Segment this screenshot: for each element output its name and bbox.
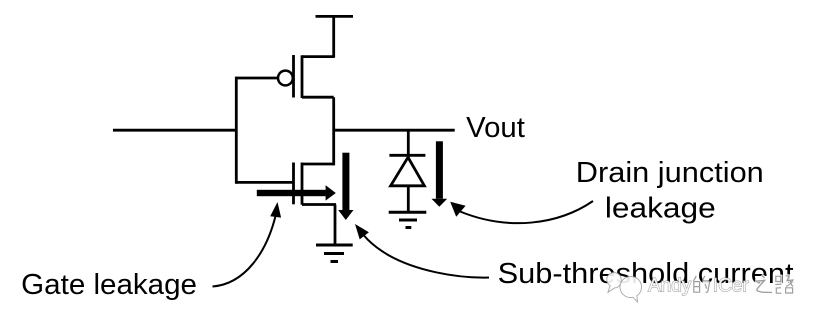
svg-text:leakage: leakage <box>605 192 716 224</box>
wire NMOS source to ground <box>334 205 337 246</box>
callout arrow for Sub-threshold current <box>355 224 489 278</box>
arrow sub-threshold current <box>338 153 353 220</box>
diode D1 (drain junction) <box>389 130 425 212</box>
watermark glyph 的 <box>694 276 710 293</box>
wire input <box>113 129 238 132</box>
svg-text:Vout: Vout <box>466 112 525 144</box>
wire Vout <box>334 129 455 132</box>
watermark glyph 路 <box>775 276 793 294</box>
wire output node vertical <box>332 97 335 165</box>
ground (NMOS source) <box>316 245 353 262</box>
ground (diode) <box>389 212 427 227</box>
svg-text:Andy: Andy <box>648 276 692 297</box>
transistor M1 (PMOS) <box>278 55 334 98</box>
wire input node to NMOS gate <box>236 181 292 184</box>
watermark glyph 之 <box>755 275 772 293</box>
svg-text:Drain junction: Drain junction <box>576 157 764 189</box>
wire input node to PMOS gate <box>236 77 278 80</box>
svg-text:Sub-threshold current: Sub-threshold current <box>498 258 794 290</box>
svg-text:ICer: ICer <box>713 276 750 297</box>
arrow gate leakage current <box>257 185 336 200</box>
label Drain junction leakage <box>576 157 764 225</box>
power rail VDD <box>316 15 354 18</box>
wire VDD to PMOS source <box>332 16 335 57</box>
callout arrow for Gate leakage <box>213 202 282 287</box>
callout arrow for Drain junction leakage <box>450 201 593 223</box>
transistor M2 (NMOS) <box>294 163 337 205</box>
watermark logo (chat bubbles) <box>607 273 793 302</box>
wire input node vertical <box>235 77 238 184</box>
arrow drain junction leakage current <box>432 141 448 206</box>
svg-text:Gate leakage: Gate leakage <box>21 269 197 301</box>
